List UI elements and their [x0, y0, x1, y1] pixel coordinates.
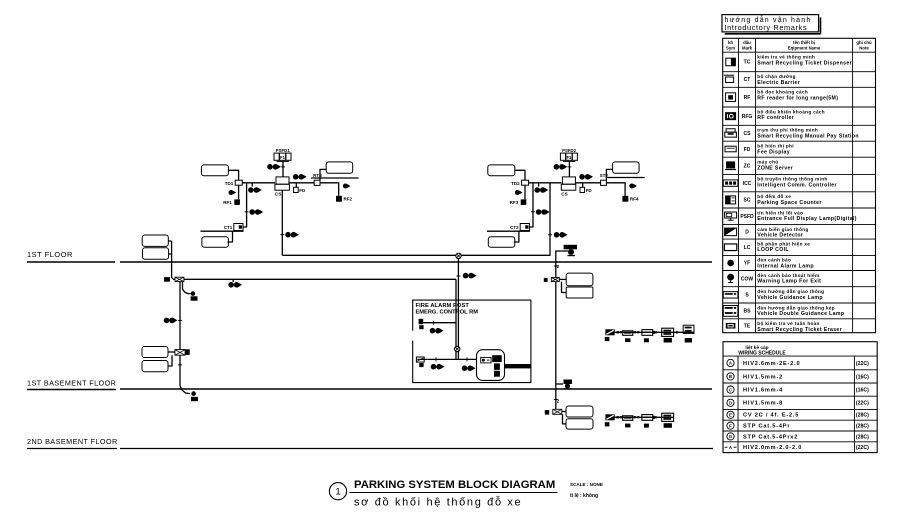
svg-text:dấu: dấu [743, 40, 751, 45]
loop coil connector LC1 [175, 277, 184, 281]
svg-text:tên thiết bị: tên thiết bị [793, 40, 815, 45]
svg-text:(28C): (28C) [856, 424, 869, 430]
loop coil at CT2 exit lane [488, 237, 515, 247]
guidance lamp S1 [623, 331, 633, 336]
tick on left trunk lower [178, 364, 182, 366]
RF reader RF1 [234, 199, 240, 205]
connector dots [617, 416, 619, 418]
connector dot [655, 331, 657, 333]
barrier CT1 [234, 224, 243, 231]
space counter SC [605, 414, 614, 420]
svg-text:2: 2 [557, 264, 560, 269]
svg-text:Parking Space Counter: Parking Space Counter [757, 200, 821, 206]
node LC4 label [545, 410, 549, 415]
tag pair on TD-CS wire [251, 183, 253, 187]
svg-text:HIV1.6mm-4: HIV1.6mm-4 [743, 388, 783, 394]
svg-text:RF2: RF2 [344, 197, 353, 202]
svg-text:ICC: ICC [743, 181, 752, 187]
wire right trunk to detector [556, 251, 568, 277]
loop coil LB2 [142, 361, 168, 372]
pay station CS [276, 177, 289, 184]
tag pair on left trunk [164, 318, 170, 324]
loop coil at CT1 exit lane [202, 237, 229, 247]
wire left trunk lower [180, 355, 190, 393]
svg-text:bộ điều khiển khoảng cách: bộ điều khiển khoảng cách [757, 108, 825, 114]
svg-text:ghi chú: ghi chú [856, 40, 872, 45]
svg-text:TC: TC [744, 60, 751, 66]
svg-text:bộ đọc khoảng cách: bộ đọc khoảng cách [757, 90, 808, 95]
svg-text:Warning Lamp For Exit: Warning Lamp For Exit [757, 279, 821, 285]
wire coil to RTE [320, 169, 326, 180]
wire coil LA2 stub [169, 253, 172, 255]
svg-text:D: D [745, 230, 749, 236]
connector dots [634, 331, 636, 333]
detector unit in panel [416, 357, 424, 362]
svg-text:Mark: Mark [742, 45, 753, 50]
node detector dot D1 [191, 291, 196, 296]
control panel unit [477, 350, 505, 381]
loop coil LA1 [142, 235, 168, 246]
loop coil RA2 [566, 287, 593, 298]
svg-text:LC: LC [744, 245, 751, 251]
svg-text:trạm thu phí thông minh: trạm thu phí thông minh [757, 128, 818, 133]
wire coil to CT1 [227, 231, 232, 243]
svg-text:B: B [729, 374, 732, 379]
tag pair on TD-CS wire [538, 183, 540, 187]
svg-text:Smart Recycling Ticket Eraser: Smart Recycling Ticket Eraser [757, 327, 842, 333]
guidance lamp S2 [642, 330, 653, 336]
tag pair on PSFD2 wire [554, 164, 560, 170]
wire CS to FD junction [289, 182, 314, 184]
loop coil RB1 [566, 406, 593, 417]
wire 1st floor label underline [27, 261, 115, 263]
tag pair on CS1 riser [280, 234, 284, 236]
wire coil RB2 stub [563, 414, 567, 424]
wire coil LB1 stub [168, 351, 175, 353]
wire STE to RF4 [606, 183, 625, 196]
double guidance lamp BS2 [683, 325, 694, 333]
svg-text:FIRE ALARM POST: FIRE ALARM POST [416, 303, 470, 309]
loop coil RA1 [566, 273, 593, 286]
svg-text:ZONE Server: ZONE Server [757, 165, 793, 171]
svg-text:Internal Alarm Lamp: Internal Alarm Lamp [757, 264, 814, 270]
svg-text:Smart Recycling Manual Pay Sta: Smart Recycling Manual Pay Station [757, 133, 859, 139]
svg-text:kh: kh [728, 40, 733, 45]
svg-text:FD: FD [586, 188, 593, 193]
svg-text:PSFD: PSFD [740, 214, 754, 220]
wire TD1 to CS [242, 182, 275, 184]
svg-text:COW: COW [741, 276, 754, 282]
svg-text:CT1: CT1 [224, 225, 233, 230]
svg-text:CS: CS [744, 131, 752, 137]
svg-text:TD1: TD1 [225, 181, 234, 186]
svg-text:kiểm tra vé thông minh: kiểm tra vé thông minh [757, 54, 815, 60]
svg-text:CS: CS [275, 192, 282, 197]
svg-text:CS: CS [561, 192, 568, 197]
svg-text:TE: TE [744, 323, 751, 329]
wire left distribution [184, 278, 456, 280]
wire lane line [487, 230, 530, 232]
panel connection bar [505, 364, 531, 368]
guidance lamp S2 [642, 415, 653, 421]
svg-text:PARKING SYSTEM BLOCK DIAGRAM: PARKING SYSTEM BLOCK DIAGRAM [354, 479, 555, 491]
double guidance lamp BS1 [662, 328, 674, 336]
svg-text:tỉ lệ : không: tỉ lệ : không [570, 493, 598, 499]
connector dots [617, 331, 619, 333]
tag A at RF3 [515, 190, 520, 195]
wire CS to FD junction [576, 182, 601, 184]
svg-text:Electric Barrier: Electric Barrier [757, 80, 800, 86]
svg-text:RF3: RF3 [510, 200, 519, 205]
wire bell to feed [423, 322, 456, 324]
wire 1st basement floor line [120, 388, 712, 390]
vehicle detector D3 [564, 380, 573, 385]
loop coil at exit [326, 162, 353, 173]
node LC3 label [544, 278, 548, 282]
svg-text:TD2: TD2 [511, 181, 520, 186]
loop coil at TD2 entrance [488, 165, 515, 176]
node conductor count 2 [554, 265, 558, 267]
svg-text:Vehicle Guidance Lamp: Vehicle Guidance Lamp [757, 295, 823, 301]
svg-text:WIRING SCHEDULE: WIRING SCHEDULE [738, 351, 786, 357]
svg-text:Eqipment Name: Eqipment Name [788, 45, 821, 50]
wiring schedule row -A- [725, 446, 737, 448]
barrier CT2 [520, 224, 529, 231]
svg-text:EMERG. CONTROL RM: EMERG. CONTROL RM [416, 309, 479, 315]
svg-text:CT2: CT2 [510, 225, 519, 230]
svg-text:Entrance Full Display Lamp(Dig: Entrance Full Display Lamp(Digital) [757, 216, 857, 222]
tag A at RF1 [229, 190, 234, 195]
vehicle detector D top [564, 245, 577, 250]
node Introductory Remarks box [722, 15, 819, 32]
svg-text:(22C): (22C) [856, 361, 869, 367]
connector dot [676, 331, 678, 333]
svg-text:đèn hướng dẫn giao thông: đèn hướng dẫn giao thông [757, 288, 824, 294]
fire bell F1 [419, 319, 424, 324]
svg-text:Sym: Sym [726, 45, 735, 50]
svg-text:F: F [729, 423, 732, 428]
svg-text:(22C): (22C) [856, 445, 869, 451]
junction J2 [455, 346, 460, 351]
junction J1 [456, 253, 461, 258]
wire left trunk upper [172, 241, 175, 279]
wire TD2 to CS [529, 182, 562, 184]
loop coil at exit [613, 162, 640, 173]
svg-text:RF reader for long range(5M): RF reader for long range(5M) [757, 95, 838, 101]
wire title underline [350, 492, 558, 494]
svg-text:đèn cảnh báo: đèn cảnh báo [757, 258, 791, 263]
svg-text:(22C): (22C) [856, 401, 869, 407]
svg-text:1ST BASEMENT FLOOR: 1ST BASEMENT FLOOR [27, 378, 116, 387]
wire coil RA2 stub [562, 282, 567, 293]
svg-text:E: E [729, 413, 732, 418]
svg-text:đèn cảnh báo thoát hiểm: đèn cảnh báo thoát hiểm [757, 272, 819, 278]
wire panel bottom bus [417, 358, 476, 360]
wire 2nd basement label underline [27, 448, 117, 450]
tag pair above FD [579, 174, 585, 180]
tag on RF2 wire [343, 184, 348, 189]
svg-text:(28C): (28C) [856, 413, 869, 419]
svg-text:PSFD2: PSFD2 [562, 148, 576, 153]
wire coil to STE [606, 169, 612, 180]
pay station CS [562, 177, 575, 184]
svg-text:RF1: RF1 [223, 200, 232, 205]
loop coil connector LC2 [175, 350, 185, 356]
connector dot [655, 416, 657, 418]
svg-text:STP Cat.5-4Pr: STP Cat.5-4Pr [743, 424, 790, 430]
wire CS1 riser down [281, 190, 283, 255]
wire 1st floor line [120, 261, 712, 263]
wire lane line upper [311, 177, 359, 179]
svg-text:LOOP COIL: LOOP COIL [757, 247, 789, 253]
wire FD stub [295, 183, 297, 188]
fee display FD [580, 187, 585, 192]
wire guidance chain [606, 331, 694, 333]
svg-text:đèn hướng dẫn giao thông kép: đèn hướng dẫn giao thông kép [757, 304, 835, 310]
wire coil to CT2 [514, 231, 519, 243]
wire coil to TD2 [515, 170, 525, 180]
eraser STE [601, 180, 607, 185]
loop coil LB1 [142, 347, 168, 358]
wire TD2 to RF3 [524, 185, 526, 199]
svg-text:(16C): (16C) [856, 388, 869, 394]
loop coil LA2 [143, 248, 169, 260]
svg-text:Vehicle Detector: Vehicle Detector [757, 233, 803, 239]
svg-text:2: 2 [557, 399, 560, 404]
node detector dot D2 [191, 391, 196, 396]
wire guidance chain [606, 416, 674, 418]
svg-text:FD: FD [299, 188, 306, 193]
tick on distribution wire [232, 279, 234, 282]
tag pair on bell wire [430, 328, 436, 334]
wire FD stub [582, 183, 584, 188]
svg-text:F1: F1 [566, 155, 572, 160]
svg-text:HIV1.5mm-8: HIV1.5mm-8 [743, 401, 783, 407]
tag pair on cluster2 riser [548, 234, 552, 236]
svg-text:máy chủ: máy chủ [757, 160, 778, 165]
svg-text:RF controller: RF controller [757, 115, 794, 121]
wiring schedule row F [727, 422, 734, 429]
wire to detector D3 [556, 383, 563, 385]
svg-text:bộ kiểm tra vé tuần hoàn: bộ kiểm tra vé tuần hoàn [757, 320, 819, 326]
wire LC4 to coil RB1 [562, 411, 566, 413]
svg-text:SC: SC [744, 198, 751, 204]
svg-text:(16C): (16C) [856, 374, 869, 380]
svg-text:cảm biến giao thông: cảm biến giao thông [757, 226, 808, 232]
wire PSFD2 to CS [568, 161, 570, 177]
wire lane line [201, 230, 244, 232]
svg-text:(28C): (28C) [856, 434, 869, 440]
connector dots [634, 416, 636, 418]
wire 2nd basement floor line [120, 448, 713, 450]
wiring schedule row E [727, 411, 734, 418]
svg-text:Introductory Remarks: Introductory Remarks [725, 23, 808, 32]
double guidance lamp BS1 [662, 413, 674, 421]
loop coil RB2 [566, 419, 593, 429]
wire coil to TD1 [228, 170, 238, 180]
tag on RF4 wire [629, 184, 634, 189]
wiring schedule frame [723, 342, 877, 453]
tag pair on J1 feed [463, 273, 469, 279]
wire J1 to fire-alarm panel [457, 259, 459, 360]
tick on bell wire [432, 321, 434, 325]
node LC2 label [186, 349, 190, 355]
wiring schedule row G [727, 433, 734, 440]
svg-text:sơ đồ khối hệ thống đỗ xe: sơ đồ khối hệ thống đỗ xe [354, 496, 522, 509]
fire alarm post enclosure [413, 300, 531, 383]
svg-text:SCALE : NONE: SCALE : NONE [570, 482, 603, 487]
svg-text:RFG: RFG [742, 114, 753, 120]
fee display FD [294, 187, 299, 192]
svg-text:RF: RF [744, 95, 751, 101]
guidance lamp S1 [623, 416, 633, 421]
svg-text:2ND BASEMENT FLOOR: 2ND BASEMENT FLOOR [27, 437, 118, 446]
wiring schedule row C [727, 386, 734, 393]
wire cluster link [282, 183, 550, 255]
svg-text:CV 2C / 4f. E-2.5: CV 2C / 4f. E-2.5 [743, 413, 799, 419]
wire 1st basement label underline [27, 389, 116, 391]
wire RTE to RF2 [320, 183, 339, 196]
svg-text:ZC: ZC [744, 164, 751, 170]
wire PSFD1 to CS [282, 161, 284, 177]
tag pair on distribution wire [228, 282, 234, 288]
svg-text:Vehicle Double Guidance Lamp: Vehicle Double Guidance Lamp [757, 311, 844, 317]
svg-text:bộ chặn đường: bộ chặn đường [757, 74, 796, 79]
svg-text:RF4: RF4 [630, 197, 639, 202]
svg-text:bộ đếm đỗ xe: bộ đếm đỗ xe [757, 193, 791, 199]
svg-text:tín hiển thị lối vào: tín hiển thị lối vào [757, 209, 803, 215]
wire left trunk mid [179, 282, 181, 350]
ticket dispenser TD2 [522, 180, 529, 185]
loop coil connector LC4 [553, 409, 562, 414]
tag pair on CT1 wire [249, 209, 255, 215]
svg-text:bộ phận phát hiện xe: bộ phận phát hiện xe [757, 241, 810, 246]
wire TD1 to RF1 [238, 185, 240, 199]
tag pair above FD [293, 174, 299, 180]
svg-text:HIV2.0mm-2.0-2.0: HIV2.0mm-2.0-2.0 [743, 445, 802, 451]
tag pair on bus 1 [435, 357, 437, 361]
loop coil connector LC3 [551, 277, 559, 281]
tag pair on PSFD1 wire [267, 164, 273, 170]
svg-text:F1: F1 [280, 155, 286, 160]
svg-text:HIV1.5mm-2: HIV1.5mm-2 [743, 374, 783, 380]
wire lane line upper [606, 177, 645, 179]
svg-text:YF: YF [744, 261, 750, 267]
RF reader RF3 [521, 199, 527, 205]
wiring schedule row A [727, 359, 734, 366]
svg-text:Note: Note [859, 45, 869, 50]
loop coil at TD1 entrance [201, 165, 228, 176]
node LC1 label [164, 277, 170, 282]
legend table frame [723, 38, 876, 332]
tick on J1 feed [456, 275, 460, 277]
svg-text:Intelligent Comm. Controller: Intelligent Comm. Controller [757, 183, 837, 189]
wiring schedule row B [727, 373, 734, 380]
ticket dispenser TD1 [235, 180, 242, 185]
space counter SC [605, 329, 614, 335]
svg-text:FD: FD [744, 147, 751, 153]
svg-text:Smart Recycling Ticket Dispens: Smart Recycling Ticket Dispenser [757, 60, 852, 66]
tag pair on CT2 wire [536, 209, 542, 215]
wire into fire-alarm panel [455, 279, 457, 359]
wire coil LB2 stub [168, 355, 172, 366]
svg-text:G: G [729, 434, 733, 439]
svg-text:1: 1 [335, 487, 340, 498]
node conductor count 2 lower [554, 399, 558, 401]
svg-text:bộ hiển thị phí: bộ hiển thị phí [757, 143, 794, 149]
svg-text:D: D [729, 401, 732, 406]
wire junction to CT1 [243, 183, 247, 227]
wire LC3 to coil RA1 [559, 278, 566, 280]
svg-text:bộ truyền thông thông minh: bộ truyền thông thông minh [757, 177, 827, 182]
svg-text:1ST FLOOR: 1ST FLOOR [27, 250, 73, 259]
RF reader RF2 [336, 196, 342, 202]
eraser RTE [314, 180, 320, 185]
svg-text:Fee Display: Fee Display [757, 149, 790, 155]
wire right trunk mid [555, 282, 557, 410]
svg-text:STP Cat.5-4Prx2: STP Cat.5-4Prx2 [743, 434, 798, 440]
svg-text:BS: BS [744, 309, 752, 315]
node drawing number circle [329, 483, 346, 500]
RF reader RF4 [622, 196, 628, 202]
wire coil LA1 stub [168, 240, 171, 242]
wire junction to CT2 [529, 183, 533, 227]
svg-text:HIV2.6mm-2E-2.0: HIV2.6mm-2E-2.0 [743, 361, 800, 367]
wire LC1 drop to detector loop [183, 282, 191, 294]
svg-text:CT: CT [744, 77, 751, 83]
svg-text:PSFD1: PSFD1 [276, 148, 290, 153]
tag pair on bus 2 [466, 357, 468, 361]
wiring schedule row D [727, 399, 734, 406]
